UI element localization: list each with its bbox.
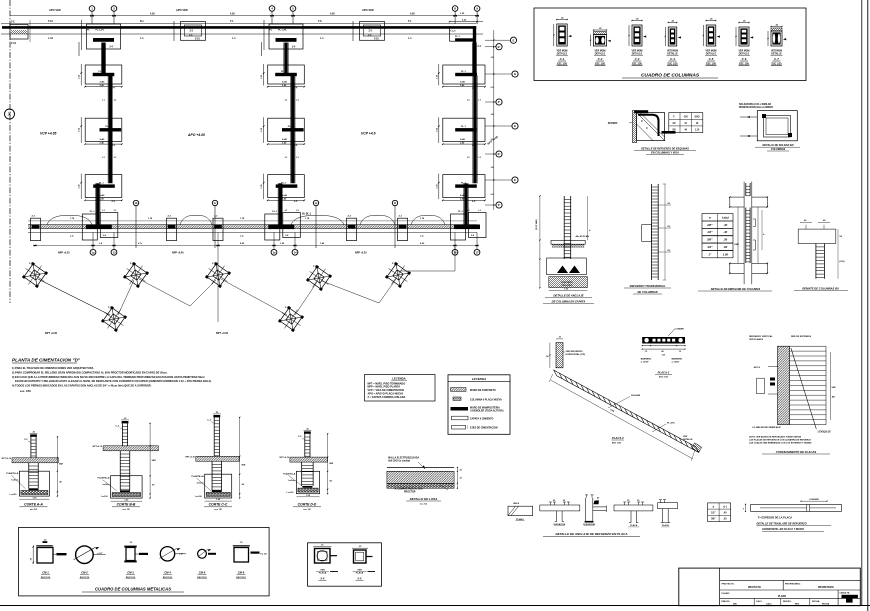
svg-text:HORIZONTAL (TIP): HORIZONTAL (TIP) [566,353,586,356]
top dimension line [10,8,479,17]
footing Z-3 on bottom chain [347,216,357,241]
footing PL-1 on strip C row 1 [436,64,485,90]
svg-text:5/8": 5/8" [711,518,715,521]
svg-text:VER MOM: VER MOM [706,51,717,53]
column section C-4 in cuadro [665,21,681,66]
svg-text:C-5: C-5 [709,57,714,61]
svg-text:APO N: APO N [754,366,761,369]
svg-text:PLANTILLA: PLANTILLA [283,472,296,475]
svg-text:ø BARR: ø BARR [676,328,685,331]
svg-text:esc 1/2: esc 1/2 [30,509,38,511]
sheet bottom border line [0,605,870,607]
isolated footing Z-5 (rotated) [120,259,152,291]
svg-text:NPT +0.00: NPT +0.00 [216,332,229,335]
svg-text:DETALLE: DETALLE [667,53,678,56]
metal column CM-3 (IPR section) [124,542,148,579]
svg-text:PL-1: PL-1 [105,126,111,128]
zigzag tie beams to isolated footings [38,232,455,322]
anchor-length table [702,214,733,258]
svg-text:DE COLUMNAS: DE COLUMNAS [637,290,657,294]
footing PL-1 on strip B row 1 [261,64,305,90]
svg-text:PL 3/16: PL 3/16 [667,423,675,425]
svg-text:1) PARA EL TRAZADO DE CIMENTAC: 1) PARA EL TRAZADO DE CIMENTACIONES VER … [12,366,94,370]
svg-text:f c=100: f c=100 [10,494,18,496]
svg-text:NPP +0.00: NPP +0.00 [172,252,184,255]
svg-text:NOTA: VER ANTES DE REFORZADO P: NOTA: VER ANTES DE REFORZADO PUEDE SER E… [749,436,802,439]
svg-text:PL-1+PL: PL-1+PL [96,30,105,32]
svg-text:LAS CUALES VAN EMBEBIDAS CON L: LAS CUALES VAN EMBEBIDAS CON LOS ESTRIBO… [749,442,812,445]
grid bubble 4 (top) [269,6,275,24]
svg-text:VAR: VAR [329,462,334,465]
svg-text:PROYECTO: PROYECTO [748,587,761,589]
svg-text:BARRENO: BARRENO [672,358,683,361]
svg-text:3) EN CASO QUE A LA PROFUNDIDA: 3) EN CASO QUE A LA PROFUNDIDAD INDICADA… [12,375,206,379]
svg-text:.40: .40 [723,230,728,234]
detail empalme de columna [698,182,772,291]
svg-text:X: X [8,112,11,117]
text APO +4.00 bay 2 [187,133,205,137]
footing Z-2 (grid 6) [352,21,384,41]
svg-text:.40x.40 PLAN: .40x.40 PLAN [575,235,589,238]
text VCP +4.6 bay 3 [361,132,376,136]
right grid dimension line [491,30,495,210]
svg-text:NPP +0.25: NPP +0.25 [355,252,367,255]
transition arc over strip footing [47,216,92,225]
svg-text:C-4: C-4 [670,57,675,61]
svg-text:APO VER: APO VER [49,8,61,12]
svg-text:ZAPATA 6 CIMIENTO: ZAPATA 6 CIMIENTO [470,417,494,420]
general notes list [12,366,211,393]
svg-text:4.05: 4.05 [410,13,415,16]
svg-text:PLANO:: PLANO: [722,592,731,595]
svg-text:PLACA-1: PLACA-1 [658,371,670,375]
svg-text:.40: .40 [723,223,728,227]
detail confinamiento de placas [749,335,836,454]
svg-text:NPT+0.10: NPT+0.10 [185,456,195,458]
svg-text:+(-): +(-) [723,505,727,508]
svg-text:LAS PLACAS DE REFUERZOS CON LA: LAS PLACAS DE REFUERZOS CON LA BARRA DE … [749,439,811,442]
isolated footing Z-5 (rotated) [19,259,51,291]
svg-text:2x45: 2x45 [460,138,466,141]
svg-text:NPT+0.10: NPT+0.10 [2,458,12,460]
footing PL-1 at strip base on bottom chain [451,211,487,240]
text APO +4.00 right [486,134,499,145]
svg-text:VER MOM: VER MOM [595,51,606,53]
svg-text:Z-10: Z-10 [11,42,17,45]
svg-text:PL 1/4: PL 1/4 [261,553,268,556]
svg-text:1e: 1e [272,250,276,254]
svg-text:VER PLANTA: VER PLANTA [749,338,763,341]
footing Z-2 (grid 3) [173,21,205,41]
svg-text:DE COLUMNA EN ZAPATA: DE COLUMNA EN ZAPATA [552,300,586,304]
svg-text:.40: .40 [597,496,600,499]
svg-text:PLANO: PLANO [516,518,524,521]
svg-text:CHI: CHI [684,116,688,118]
svg-text:ø 13/16": ø 13/16" [672,361,680,363]
svg-text:CM-5: CM-5 [199,571,206,575]
grid bubble F' (right side) [485,202,502,208]
svg-text:E: E [514,178,516,182]
svg-text:DIBUJO:: DIBUJO: [722,601,731,603]
svg-text:C-2: C-2 [598,57,603,61]
svg-text:PL-1: PL-1 [455,36,461,38]
svg-text:VCP +4.65: VCP +4.65 [40,132,56,136]
grid bubble E' (right side) [485,44,502,50]
cuadro de columnas metalicas box [19,527,270,596]
svg-text:1/2": 1/2" [711,512,715,515]
svg-text:PL-1: PL-1 [461,71,467,73]
metal column CM-1 (square tube) [31,540,67,579]
svg-text:DETALLE: DETALLE [771,53,782,56]
svg-text:DETALLE: DETALLE [739,53,750,56]
title block [679,568,861,606]
svg-text:(2.20 VAR): (2.20 VAR) [535,219,538,230]
svg-text:2x45: 2x45 [282,81,288,84]
svg-text:EN DICHO ESTRATO Y RELLENAR HA: EN DICHO ESTRATO Y RELLENAR HASTA LLEGAR… [15,379,211,383]
svg-text:PL-1: PL-1 [281,71,287,73]
svg-text:DETALLE DE SOLDAD EN: DETALLE DE SOLDAD EN [763,144,794,147]
svg-text:h=5cm: h=5cm [197,483,204,485]
footing PL-1 on strip B row 2 [261,117,305,147]
svg-text:1.10: 1.10 [695,130,700,132]
left edge footing 2-C Z-10 [10,20,31,45]
svg-text:LEYENDA: LEYENDA [392,376,405,380]
svg-text:CM-2: CM-2 [81,571,88,575]
svg-text:RED DE ESTRIBOS: RED DE ESTRIBOS [791,336,812,338]
svg-text:NPT+0.10: NPT+0.10 [279,457,289,459]
svg-text:2-C: 2-C [368,35,372,37]
svg-text:C-7: C-7 [774,57,779,61]
svg-text:CORTE B-B: CORTE B-B [117,503,136,507]
grid bubble 8 (top) [452,6,458,24]
svg-text:F': F' [498,100,501,104]
svg-text:.20: .20 [552,500,555,502]
svg-text:2-15: 2-15 [374,37,379,40]
svg-text:A. COMPACTADO AL 95%: A. COMPACTADO AL 95% [395,487,423,490]
column section C-7 in cuadro [767,25,786,66]
svg-text:MALLA ELECTROSOLDADA: MALLA ELECTROSOLDADA [388,457,419,460]
svg-text:6x6-10/10 (o similar): 6x6-10/10 (o similar) [388,461,410,463]
corner footing Z-1 (grid 9) [449,13,483,48]
svg-text:ELEVACION: ELEVACION [554,523,566,526]
svg-text:PL-1: PL-1 [288,126,294,128]
svg-text:CORTE D-D: CORTE D-D [298,503,317,507]
svg-text:PLACA: PLACA [662,524,669,527]
placa vertical bar detail [546,337,586,368]
svg-text:CM-6: CM-6 [238,571,245,575]
grid bubble 1c above bottom chain [212,200,217,248]
footing Z-3 on bottom chain [213,216,223,241]
svg-text:REVISO:: REVISO: [783,601,792,603]
section CORTE B-B [93,418,159,511]
svg-text:VER MOM: VER MOM [557,51,568,53]
svg-text:2x45: 2x45 [100,194,106,197]
svg-text:esc 1/2: esc 1/2 [303,509,311,511]
svg-text:f c=100: f c=100 [101,496,109,498]
column section C-5 in cuadro [703,19,720,66]
svg-text:T= ESPESOR DE LA PLACA: T= ESPESOR DE LA PLACA [758,515,793,519]
footing PL-1 at strip base on bottom chain [82,211,118,240]
svg-text:.40: .40 [661,350,664,353]
svg-text:C-3: C-3 [635,57,640,61]
footing Z-1 with column strip (grid 4) [262,20,304,56]
detail refuerzo transversal de columnas [624,184,671,294]
svg-text:PL-1+PL: PL-1+PL [278,30,287,32]
hook length mini table [708,503,731,522]
svg-text:1 E#3@0.20: 1 E#3@0.20 [817,431,831,434]
grid axis X dash-dot line [9,0,11,303]
svg-text:PL-1: PL-1 [458,211,464,213]
svg-text:PROCTOR: PROCTOR [404,492,416,494]
svg-text:4.05: 4.05 [330,13,335,16]
svg-text:2-15: 2-15 [195,37,200,40]
svg-text:4) TODOS LOS PERNOS INDICADOS: 4) TODOS LOS PERNOS INDICADOS EN LAS ZAP… [12,383,152,387]
svg-text:esc 1/2: esc 1/2 [420,504,428,506]
svg-text:CABLE TA: CABLE TA [840,592,851,595]
detail remate de columnas (P) [794,219,848,291]
svg-text:DETALLE: DETALLE [595,53,606,56]
svg-text:2-C: 2-C [11,21,15,24]
grid bubble 1a below bottom chain [90,232,96,255]
svg-text:DIB: DIB [733,604,737,606]
top chain beam labels [48,20,412,40]
svg-text:VER MOM: VER MOM [739,51,750,53]
isolated footing Z-5 (rotated) [98,303,130,335]
grid bubble F' (right side) [485,99,502,105]
grid bubble 1b above bottom chain [133,200,138,248]
metal column CM-6 (square tube) [233,542,268,579]
svg-text:E: E [512,38,514,42]
isolated footing Z-5 (rotated) [382,259,414,291]
svg-text:EMP: EMP [734,244,739,246]
svg-text:VCP +4.6: VCP +4.6 [361,132,376,136]
svg-text:h=5cm: h=5cm [288,480,295,482]
svg-text:CORTE A-A: CORTE A-A [24,503,43,507]
anclaje refuerzo detail: elevacion T1 [540,500,580,526]
svg-text:f c=100: f c=100 [195,496,203,498]
svg-text:PL-1: PL-1 [282,182,288,184]
svg-text:LONGMIN: LONGMIN [809,499,819,501]
svg-text:VAR: VAR [152,459,157,462]
svg-text:VAR: VAR [832,386,837,389]
svg-text:2x45: 2x45 [100,138,106,141]
grid bubble 1 (top) [89,6,95,24]
svg-text:17: 17 [475,250,479,254]
svg-text:PROYECTO:: PROYECTO: [722,583,735,585]
svg-text:ELEVACION: ELEVACION [583,523,595,526]
svg-text:h=5cm: h=5cm [11,480,18,482]
grid bubble 14 below bottom chain [292,232,298,255]
sheet right border double line [862,0,868,611]
svg-text:.10: .10 [645,351,648,353]
plan title PLANTA DE CIMENTACION D [12,358,81,364]
svg-text:E: E [514,124,516,128]
svg-text:2x45: 2x45 [282,194,288,197]
svg-text:DETALLE: DETALLE [706,53,717,56]
bottom dimension line [33,242,478,246]
transition arc over strip footing [180,216,212,225]
section CORTE D-D [279,428,333,511]
transition arc over strip footing [411,216,445,225]
svg-text:(1.20): (1.20) [839,261,845,263]
footing PL-1 on strip C row 3 [436,174,485,204]
svg-text:PLANTILLA: PLANTILLA [97,477,110,480]
svg-text:DETALLE DE REFUERZO DE ESQUINA: DETALLE DE REFUERZO DE ESQUINAS [641,148,689,151]
NPT level texts [45,332,229,335]
svg-text:SOLDAR: SOLDAR [631,394,641,397]
top foundation beam heavy line VC-1 [2,26,476,29]
svg-text:PL-1: PL-1 [99,182,105,184]
svg-text:VAR B: VAR B [513,502,520,505]
svg-text:VER MOM: VER MOM [771,51,782,53]
svg-text:f c=100: f c=100 [287,492,295,494]
svg-text:B-c: B-c [140,20,145,23]
svg-text:CICLOPEO: CICLOPEO [562,285,573,287]
footing PL-1 on strip C row 2 [436,117,485,147]
svg-text:REFUERZO VERTICAL: REFUERZO VERTICAL [749,335,773,338]
svg-text:CALC:: CALC: [756,600,763,603]
svg-text:CORTE C-C: CORTE C-C [209,503,228,507]
anclaje refuerzo detail: placa corner [658,500,678,527]
anclaje refuerzo row title [543,532,640,536]
grid bubble E (right side) [485,177,518,183]
footing PL-1 on strip A row 2 [79,117,123,147]
grid bubble E' (right side) [485,151,502,157]
grid bubble E (right side) [485,37,517,43]
svg-text:X-X: X-X [319,578,325,581]
footing PL-1 on strip A row 3 [79,174,123,204]
column section C-6 in cuadro [735,21,753,66]
svg-text:ø: ø [709,216,711,220]
svg-text:esc 1/2: esc 1/2 [214,509,222,511]
svg-text:HORIZONTAL EN PLACA Y MURO: HORIZONTAL EN PLACA Y MURO [762,527,804,531]
svg-text:SHO: SHO [695,116,700,118]
svg-text:NPP +0.25: NPP +0.25 [58,252,70,255]
placa-2 diagonal plate [549,370,702,461]
anclaje refuerzo detail: placa T2 [614,500,653,527]
svg-text:2-C: 2-C [189,35,193,37]
svg-text:C-1: C-1 [560,57,565,61]
svg-text:LEYENDA: LEYENDA [472,377,486,381]
footing Z-1 with column strip (grid 1) [79,20,121,56]
svg-text:ESC 1/20: ESC 1/20 [612,442,622,444]
text VCP +4.65 bay 1 [40,132,56,136]
section CORTE A-A [2,431,64,511]
svg-text:E': E' [498,45,501,49]
column strip A heavy bar with offsets [96,43,118,225]
svg-text:13: 13 [112,250,116,254]
footing Z-3 on bottom chain [167,216,177,241]
svg-text:REMATE DE COLUMNAS (P): REMATE DE COLUMNAS (P) [802,287,838,291]
column section C-3 in cuadro [628,19,646,66]
svg-text:EN COLUMNAS Y VIGA: EN COLUMNAS Y VIGA [651,151,679,154]
svg-text:PL-1: PL-1 [272,211,278,213]
svg-text:PL-1: PL-1 [90,211,96,213]
svg-text:CM-3: CM-3 [127,571,134,575]
svg-text:DETALLE DE LOSA: DETALLE DE LOSA [410,497,438,501]
base plate details box [308,543,382,586]
svg-text:PL-1: PL-1 [461,182,467,184]
svg-text:esc. 1/50: esc. 1/50 [20,389,31,393]
anclaje refuerzo detail: plano [508,502,533,521]
svg-text:COLUMNAS: COLUMNAS [771,148,786,151]
svg-text:PL-1: PL-1 [99,71,105,73]
svg-text:2/8": 2/8" [706,223,713,227]
svg-text:2x45: 2x45 [100,81,106,84]
svg-text:.20: .20 [562,500,565,502]
metal column CM-2 (round pipe) [74,546,106,579]
svg-text:BARRENO: BARRENO [641,358,652,361]
svg-text:FECHA: FECHA [822,603,830,606]
svg-text:SUPERF: SUPERF [608,122,618,125]
svg-text:T-1+9: T-1+9 [450,31,456,33]
svg-text:1f: 1f [394,201,396,205]
svg-text:4.05: 4.05 [150,13,155,16]
svg-text:APO VER: APO VER [176,8,188,12]
footing Z-3 on bottom chain [398,216,408,241]
svg-text:PLACA: PLACA [356,571,364,574]
grid bubble E (right side) [485,123,518,129]
grid bubble 13 below bottom chain [111,232,117,255]
placa-1 plate detail [641,328,686,379]
svg-text:CUADRO DE COLUMNAS: CUADRO DE COLUMNAS [641,73,700,79]
svg-text:DETALLE DE TRASLAPE DE REFUERZ: DETALLE DE TRASLAPE DE REFUERZO [757,522,807,526]
svg-text:A DEMOLER (TODA ALTURA): A DEMOLER (TODA ALTURA) [470,409,504,412]
svg-text:DETALLE DE ANCLAJE: DETALLE DE ANCLAJE [553,294,583,298]
metal column CM-5 (small pipe) [197,549,216,579]
svg-text:1a: 1a [91,250,95,254]
column section C-1 in cuadro [553,18,571,66]
svg-text:PLANO: PLANO [778,595,786,598]
transition arc over strip footing [291,216,344,225]
svg-text:Z = ZAPATA CORRIDA AISLAD: Z = ZAPATA CORRIDA AISLADA [368,396,406,399]
legend box (symbols) [448,375,510,435]
svg-text:2x45: 2x45 [460,81,466,84]
svg-text:DETALLE DE ANCLAJE DE REFU: DETALLE DE ANCLAJE DE REFUERZO EN PLACA [555,532,627,536]
svg-text:CM-1: CM-1 [42,571,49,575]
svg-text:PLACA: PLACA [319,571,327,574]
section CORTE C-C [185,412,245,511]
svg-text:PENETRACION 6mm A AMBOS: PENETRACION 6mm A AMBOS [739,106,773,109]
svg-text:ESC 1/10: ESC 1/10 [659,377,669,379]
svg-text:APO +4.00: APO +4.00 [187,133,205,137]
column strip B heavy bar with offsets [278,43,300,225]
svg-text:EJES DE CIMENTACION: EJES DE CIMENTACION [470,427,498,430]
svg-text:X-X: X-X [356,578,362,581]
svg-text:2x45: 2x45 [282,138,288,141]
svg-text:C-6: C-6 [742,57,747,61]
svg-text:BL BL-1: BL BL-1 [302,213,312,216]
detail refuerzo de esquina [608,110,703,154]
svg-text:SOLDADURA E 60 o SIMILAR: SOLDADURA E 60 o SIMILAR [739,103,771,106]
cuadro de columnas metalicas title [82,587,184,593]
svg-text:1.20: 1.20 [662,354,666,356]
svg-text:T-10: T-10 [48,20,53,23]
NPP level texts below chain [58,252,367,255]
grid bubble 1e below bottom chain [271,232,277,255]
svg-text:.20: .20 [637,500,640,502]
svg-text:VAR: VAR [59,463,64,466]
top continuous footing edge lines [1,24,483,35]
svg-text:REV: REV [795,604,800,606]
svg-text:NPT+0.10: NPT+0.10 [93,446,103,448]
svg-text:PLANTILLA: PLANTILLA [6,472,19,475]
anclaje refuerzo detail: elevacion L (corner) [583,495,606,526]
svg-text:VER MOM: VER MOM [632,51,643,53]
svg-text:3/4": 3/4" [707,245,713,249]
base plate PB-2 [352,546,375,581]
svg-text:DETALLE: DETALLE [632,53,643,56]
